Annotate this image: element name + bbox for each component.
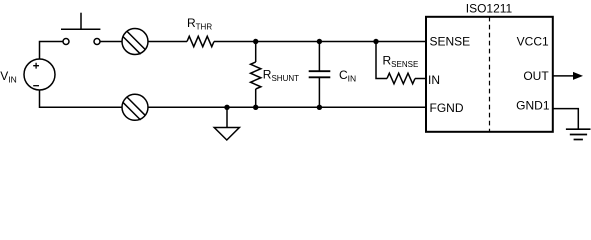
wire V_IN bottom	[40, 90, 123, 107]
node: C_IN bottom junction	[317, 105, 322, 110]
field ground (triangle)	[214, 128, 239, 141]
switch stem	[80, 13, 82, 30]
switch actuator bar	[61, 28, 100, 30]
svg-text:ISO1211: ISO1211	[466, 2, 513, 16]
node: field ground tap	[224, 105, 229, 110]
earth ground GND1	[566, 128, 591, 130]
resistor R_SHUNT	[251, 62, 261, 89]
wire R_SHUNT top lead	[255, 42, 257, 63]
voltage source V_IN	[24, 59, 55, 90]
resistor R_SENSE	[387, 73, 415, 84]
wire C_IN bottom lead	[318, 77, 320, 107]
V_IN plus sign	[33, 63, 39, 69]
OUT pin wire	[553, 75, 574, 77]
field terminal 2 (hatched circle)	[122, 94, 148, 120]
wire field ground stub	[226, 107, 228, 127]
svg-text:OUT: OUT	[523, 69, 549, 83]
capacitor C_IN	[309, 70, 331, 72]
OUT arrowhead	[573, 72, 583, 80]
wire R_THR to SENSE pin	[214, 41, 426, 43]
node: R_SHUNT bottom junction	[253, 105, 258, 110]
isolation barrier (dashed)	[489, 17, 491, 132]
svg-text:GND1: GND1	[516, 99, 550, 113]
wire R_SHUNT bottom lead	[255, 89, 257, 107]
GND1 pin wire	[553, 109, 579, 130]
bottom wire to FGND pin	[148, 106, 426, 108]
field terminal 1 (hatched circle)	[122, 29, 148, 55]
node: R_SHUNT top junction	[253, 39, 258, 44]
switch right contact	[94, 39, 100, 45]
V_IN minus sign	[33, 85, 39, 87]
node: C_IN top junction	[317, 39, 322, 44]
wire V_IN top to switch	[40, 42, 64, 60]
wire terminal 1 to R_THR	[148, 41, 187, 43]
svg-text:FGND: FGND	[430, 101, 464, 115]
svg-text:IN: IN	[428, 73, 440, 87]
resistor R_THR	[187, 36, 214, 46]
wire R_SENSE to IN pin	[415, 78, 426, 80]
svg-text:VCC1: VCC1	[517, 35, 549, 49]
switch (pushbutton) left contact	[63, 39, 69, 45]
node: R_SENSE tap junction	[373, 39, 378, 44]
svg-text:SENSE: SENSE	[430, 35, 471, 49]
wire SENSE node down to R_SENSE	[376, 42, 387, 79]
wire C_IN top lead	[318, 42, 320, 72]
IC body ISO1211	[426, 17, 553, 132]
wire switch to field terminal 1	[100, 41, 122, 43]
